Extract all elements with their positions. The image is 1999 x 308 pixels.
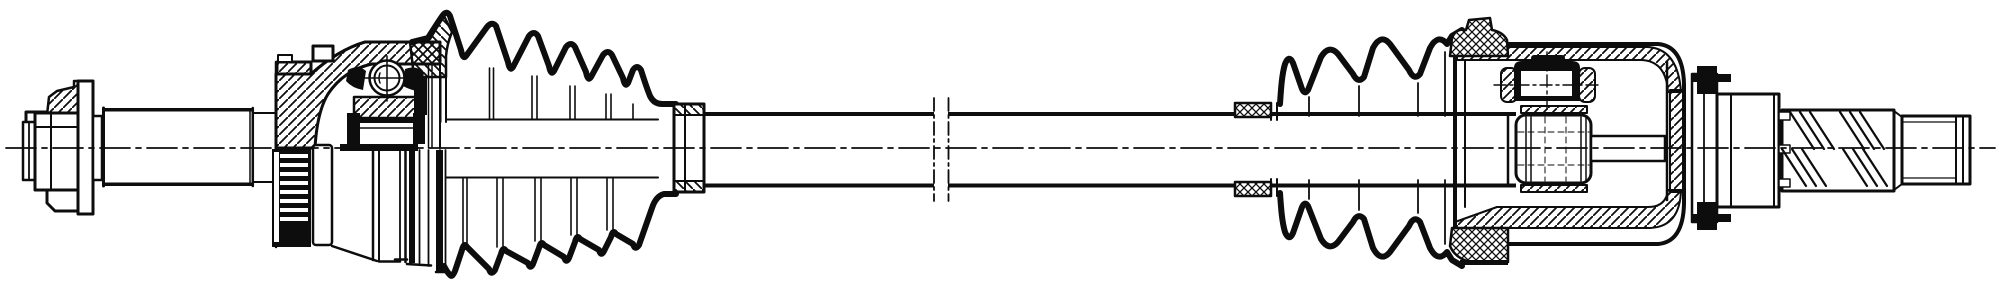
inner sleeve lines (446, 119, 658, 121)
bottom wall hatch (1455, 190, 1681, 228)
thread stub tip (23, 122, 35, 180)
cavity right wall lines (414, 78, 427, 115)
neck to joint (254, 112, 275, 114)
housing lower profile (332, 246, 377, 261)
cage cylinder below (313, 145, 332, 245)
left stub nut assembly (23, 81, 102, 214)
nut lower block (47, 190, 78, 211)
roller crosshair (1494, 84, 1601, 86)
tripod roller top: black ring (1514, 61, 1580, 101)
big end hatched section top (410, 16, 452, 77)
ball (370, 61, 405, 96)
right tripod joint housing (1277, 44, 1684, 244)
flange plate (78, 81, 93, 214)
outer shell (1455, 44, 1684, 244)
inner race hatched bands (1521, 106, 1587, 113)
right CV boot (1235, 30, 1462, 266)
left CV boot (395, 13, 704, 276)
top wall hatch (1457, 47, 1681, 92)
flange washer hatched (47, 81, 90, 115)
inner race block (1516, 115, 1591, 183)
vent square tab (313, 46, 333, 61)
inner joint bell housing hatched (272, 42, 440, 262)
nut top step (26, 112, 47, 132)
tripod roller top: side hatched blocks (1501, 68, 1517, 102)
convolution wall lines top (489, 68, 491, 119)
valley lines (1308, 97, 1310, 116)
bellows bottom (444, 194, 676, 276)
tone ring (272, 149, 311, 247)
output shaft group (1692, 66, 1970, 230)
shaft 1 (102, 108, 275, 186)
right boot big-end lumps over housing (1450, 18, 1508, 265)
threaded tip (1902, 116, 1970, 184)
cage wedge left (346, 67, 366, 90)
chamfer to thread (1894, 111, 1902, 117)
big end lower cylinders (exterior view) (399, 150, 401, 261)
centerline (6, 147, 1995, 149)
bellows top (1280, 30, 1462, 104)
bearing outer race hatched (354, 97, 417, 118)
break lines (933, 98, 935, 201)
shaft 2 (long middle shaft) (704, 98, 1277, 201)
big end vertical edges (440, 74, 442, 122)
shaft end into joint (1277, 112, 1516, 116)
bellows top (412, 13, 676, 104)
spline teeth ticks (1779, 112, 1790, 120)
nut body (35, 113, 78, 190)
small end clamp (674, 104, 704, 192)
bellows bottom (1280, 193, 1462, 266)
washer collar (93, 116, 102, 180)
convolution wall lines bottom (462, 178, 464, 243)
right wall hatch (1670, 90, 1684, 192)
small end clamp top (1235, 103, 1271, 117)
cap cylinder (1717, 94, 1779, 207)
spline diagonals (1782, 112, 1887, 186)
rim flange strip (277, 62, 311, 74)
stub cylinder right (1591, 136, 1665, 161)
small end clamp bottom (1235, 182, 1271, 196)
spline band at centerline (340, 144, 418, 151)
ring tabs (1697, 66, 1717, 94)
snap ring plate (1692, 74, 1717, 222)
inner race posts (347, 113, 360, 144)
spline cylinder (1782, 110, 1894, 191)
cage wedge right (403, 68, 424, 92)
